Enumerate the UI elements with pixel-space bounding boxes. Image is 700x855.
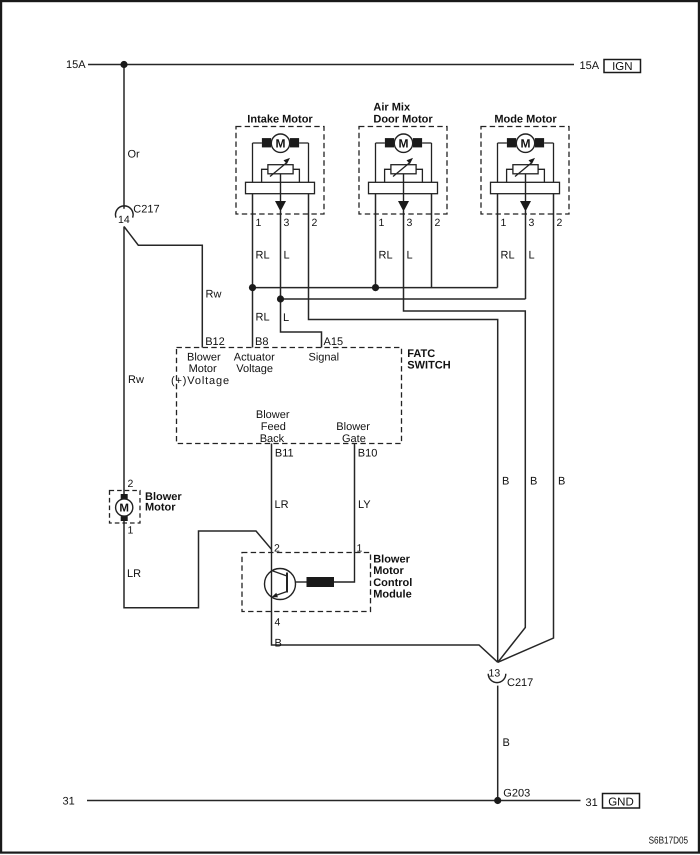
wire L from bus to FATC pin A15 (281, 299, 322, 348)
blower motor M1 box (110, 491, 141, 524)
wire mode motor pin 2 B route to connector C217 pin 13 (498, 194, 554, 663)
wire GND 31 bottom rail (87, 800, 581, 802)
svg-text:Control: Control (373, 577, 412, 589)
wire air mix door motor pin 3 B route to connector C217 pin 13 (404, 211, 526, 663)
wire blower motor pin 1 LR to module pin 2 (124, 521, 272, 608)
svg-text:RL: RL (379, 250, 393, 262)
svg-text:Or: Or (128, 149, 141, 161)
svg-text:LR: LR (275, 499, 289, 511)
mode motor M symbol (516, 134, 534, 152)
wire mode motor pin 3 L down to bus (525, 211, 527, 300)
svg-text:M: M (399, 137, 409, 151)
svg-text:31: 31 (586, 797, 598, 809)
blower motor brushes (121, 494, 128, 499)
resistor R1 (307, 577, 335, 587)
air mix door motor connector bar (369, 182, 438, 193)
svg-text:1: 1 (256, 217, 262, 229)
svg-text:Motor: Motor (145, 502, 176, 514)
svg-text:1: 1 (357, 543, 363, 555)
svg-text:B8: B8 (255, 336, 268, 348)
svg-text:Blower: Blower (187, 352, 221, 364)
intake motor brushes (262, 138, 271, 147)
mode motor potentiometer (513, 165, 538, 174)
svg-text:Blower: Blower (336, 421, 370, 433)
svg-text:B: B (530, 476, 537, 488)
node junction dot L bus at A15 (277, 295, 284, 302)
svg-text:L: L (283, 312, 289, 324)
svg-text:M: M (521, 137, 531, 151)
air mix door motor M symbol (394, 134, 412, 152)
blower motor control module box (242, 553, 371, 612)
svg-text:M: M (119, 502, 129, 514)
wire intake motor pin 3 L down to bus (280, 211, 282, 300)
intake motor M symbol (271, 134, 289, 152)
intake motor center wire and arrow (280, 174, 282, 202)
svg-text:1: 1 (501, 217, 507, 229)
svg-text:Voltage: Voltage (236, 363, 273, 375)
air mix door motor center wire and arrow (403, 174, 405, 202)
svg-text:Mode Motor: Mode Motor (494, 113, 557, 125)
svg-text:FATC: FATC (407, 348, 435, 360)
svg-text:Motor: Motor (189, 363, 217, 375)
svg-text:Air Mix: Air Mix (373, 102, 411, 114)
svg-text:2: 2 (435, 217, 441, 229)
connector C217 pin 13 arc (488, 674, 506, 683)
air mix door motor U2 box (359, 127, 447, 215)
svg-text:2: 2 (312, 217, 318, 229)
wire LY from FATC pin B10 to module pin 1 (354, 444, 356, 553)
intake motor connector bar (246, 182, 315, 193)
svg-text:3: 3 (284, 217, 290, 229)
svg-text:B10: B10 (358, 448, 378, 460)
svg-text:Gate: Gate (342, 433, 366, 445)
svg-text:B: B (503, 737, 510, 749)
wire Rw main left branch from C217 pin 14 to blower motor pin 2 (123, 227, 125, 495)
wire intake motor pin 1 RL down to bus (252, 194, 254, 288)
svg-text:(+)Voltage: (+)Voltage (171, 375, 230, 387)
FATC switch box (177, 348, 402, 444)
wire LR from FATC pin B11 to module pin 2 (271, 444, 273, 553)
svg-text:Blower: Blower (256, 409, 290, 421)
svg-text:2: 2 (274, 543, 280, 555)
connector C217 pin 14 arc (115, 206, 133, 218)
svg-text:B12: B12 (205, 336, 225, 348)
svg-text:2: 2 (557, 217, 563, 229)
intake motor potentiometer (268, 165, 293, 174)
svg-text:B: B (275, 637, 282, 649)
svg-text:LY: LY (358, 499, 371, 511)
svg-text:Signal: Signal (309, 352, 340, 364)
svg-text:C217: C217 (133, 203, 159, 215)
svg-text:1: 1 (128, 525, 134, 537)
svg-text:RL: RL (256, 312, 270, 324)
svg-text:3: 3 (407, 217, 413, 229)
svg-text:LR: LR (127, 568, 141, 580)
wire Or from top rail to connector C217 pin 14 (123, 65, 125, 209)
svg-text:3: 3 (529, 217, 535, 229)
wire L bus node B (281, 298, 526, 300)
svg-text:Module: Module (373, 589, 412, 601)
wire Rw branch fan-out diagonal to B12 (124, 227, 202, 348)
svg-text:B11: B11 (275, 448, 294, 460)
svg-text:15A: 15A (66, 59, 86, 71)
wire RL bus node A (253, 287, 498, 289)
svg-text:14: 14 (118, 214, 130, 226)
mode motor connector bar (491, 182, 560, 193)
mode motor center wire and arrow (525, 174, 527, 202)
svg-text:A15: A15 (324, 336, 344, 348)
transistor Q1 (265, 569, 296, 600)
blower motor M symbol (116, 499, 133, 516)
wire from resistor to module pin 1 (334, 553, 355, 583)
svg-text:13: 13 (489, 668, 501, 680)
IGN box (604, 60, 641, 73)
svg-text:G203: G203 (503, 787, 530, 799)
svg-text:SWITCH: SWITCH (407, 360, 450, 372)
svg-text:4: 4 (275, 617, 281, 629)
svg-text:Intake Motor: Intake Motor (247, 113, 313, 125)
svg-text:S6B17D05: S6B17D05 (649, 835, 689, 846)
air mix door motor brushes (385, 138, 394, 147)
svg-text:L: L (284, 250, 290, 262)
mode motor U3 box (481, 127, 569, 215)
svg-text:B: B (558, 476, 565, 488)
svg-text:C217: C217 (507, 677, 533, 689)
svg-text:Rw: Rw (206, 289, 222, 301)
node junction dot RL bus at B8 (249, 284, 256, 291)
svg-text:Blower: Blower (373, 553, 410, 565)
svg-text:B: B (502, 476, 509, 488)
wire RL from bus to FATC pin B8 (252, 288, 254, 348)
wire mode motor pin 1 RL down to bus (497, 194, 499, 288)
svg-text:L: L (529, 250, 535, 262)
svg-text:IGN: IGN (612, 61, 632, 73)
svg-text:GND: GND (608, 796, 634, 808)
air mix door motor potentiometer (391, 165, 416, 174)
svg-text:31: 31 (63, 796, 75, 808)
svg-text:Back: Back (260, 433, 285, 445)
wire intake motor pin 2 B route to connector C217 pin 13 (309, 194, 498, 663)
wire air mix door motor pin 2 down to bus (431, 194, 433, 288)
svg-text:Actuator: Actuator (234, 352, 275, 364)
node junction dot RL bus at air mix pin 1 (372, 284, 379, 291)
node junction dot top rail (120, 61, 127, 68)
node ground dot G203 (494, 797, 501, 804)
wire IGN 15A top rail (88, 64, 574, 66)
svg-text:Rw: Rw (128, 374, 144, 386)
svg-text:15A: 15A (580, 60, 600, 72)
svg-text:2: 2 (128, 478, 134, 490)
wire air mix door motor pin 1 RL down to bus (375, 194, 377, 288)
wire B from connector C217 pin 13 to ground G203 (497, 686, 499, 801)
svg-text:RL: RL (501, 250, 515, 262)
svg-text:RL: RL (256, 250, 270, 262)
svg-text:1: 1 (379, 217, 385, 229)
wire module pin 4 B to connector C217 pin 13 (272, 612, 498, 663)
intake motor U1 box (236, 127, 324, 215)
GND box (603, 794, 640, 809)
svg-text:Motor: Motor (373, 565, 404, 577)
svg-text:L: L (407, 250, 413, 262)
svg-text:Feed: Feed (261, 421, 286, 433)
svg-text:Door Motor: Door Motor (373, 113, 433, 125)
svg-text:M: M (276, 137, 286, 151)
mode motor brushes (507, 138, 516, 147)
